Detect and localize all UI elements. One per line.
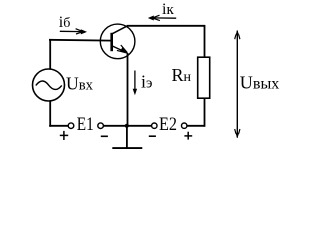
minus sign E1 — [101, 135, 108, 137]
wire left vertical upper — [49, 39, 51, 69]
wire right vertical lower — [204, 98, 206, 127]
wire bottom segment to E1 — [49, 125, 68, 127]
plus sign E2 — [184, 135, 192, 137]
transistor collector lead — [112, 26, 127, 34]
terminal E1 right — [98, 123, 104, 129]
wire top collector to right corner — [127, 25, 205, 27]
ground bar — [112, 147, 142, 149]
junction node emitter/ground — [125, 124, 129, 128]
resistor Rn body — [198, 57, 210, 98]
transistor emitter arrowhead — [121, 45, 128, 53]
current arrow ib — [60, 30, 82, 32]
terminal E2 left — [152, 123, 157, 128]
svg-text:E1: E1 — [77, 114, 94, 135]
terminal E2 right — [182, 123, 187, 128]
sine wave inside source — [36, 81, 62, 89]
wire bottom segment E1 to E2 — [103, 125, 152, 127]
wire base horizontal from source branch to transistor base — [49, 39, 112, 42]
svg-text:E2: E2 — [159, 114, 177, 135]
minus sign E2 — [149, 135, 156, 137]
current arrow ik — [152, 17, 176, 19]
svg-text:iб: iб — [59, 14, 71, 31]
ground stem — [126, 126, 128, 148]
wire left vertical lower — [49, 101, 51, 127]
transistor emitter lead — [112, 46, 128, 53]
transistor VT circle — [100, 24, 135, 59]
wire bottom segment E2 to right corner — [187, 125, 205, 127]
wire right vertical upper — [204, 25, 206, 57]
svg-text:iк: iк — [162, 1, 174, 18]
plus sign E1 — [60, 134, 68, 136]
source Uvx AC generator circle — [33, 69, 65, 101]
transistor base bar — [110, 33, 113, 51]
svg-text:Uвых: Uвых — [240, 73, 279, 93]
wire emitter vertical — [127, 53, 129, 126]
output voltage arrow Uvyh — [236, 31, 238, 138]
current arrow ie — [134, 71, 136, 93]
terminal E1 left — [68, 123, 74, 129]
